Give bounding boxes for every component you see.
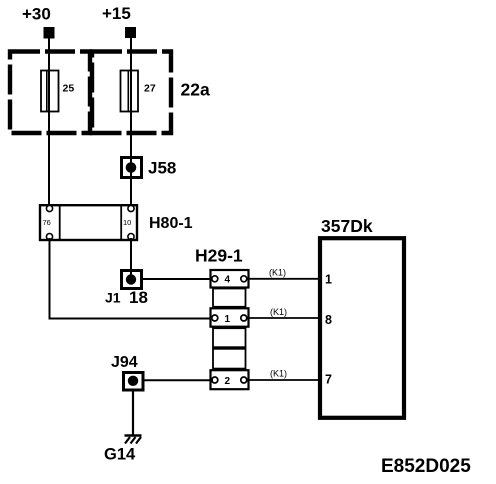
svg-text:7: 7 — [325, 373, 332, 387]
svg-text:18: 18 — [129, 288, 148, 307]
wire H29-1 pin 1 to 357Dk pin 8 — [249, 317, 323, 319]
wire from J94 to H29-1 pin 2 — [143, 379, 213, 381]
H29-1 blank cell 1 — [213, 289, 246, 307]
svg-text:1: 1 — [225, 314, 231, 325]
svg-text:E852D025: E852D025 — [381, 456, 471, 477]
svg-text:(K1): (K1) — [270, 368, 287, 378]
fuse 25 — [41, 71, 59, 112]
svg-text:J1: J1 — [105, 290, 121, 306]
svg-text:25: 25 — [63, 83, 75, 95]
wire from +30 post through fuse 25 to H80-1 pin 76 — [48, 38, 50, 208]
svg-text:4: 4 — [225, 275, 231, 286]
svg-text:22a: 22a — [181, 80, 210, 100]
H29-1 blank cell 3 — [213, 349, 246, 369]
svg-text:10: 10 — [123, 218, 131, 227]
fuse 27 — [121, 71, 139, 112]
wire H29-1 pin 2 to 357Dk pin 7 — [249, 379, 323, 381]
svg-text:J58: J58 — [148, 159, 176, 178]
svg-text:357Dk: 357Dk — [321, 216, 373, 236]
H29-1 blank cell 2 — [213, 328, 246, 347]
svg-text:J94: J94 — [111, 354, 138, 371]
H29-1 pin 2 row — [211, 370, 249, 389]
connector H80-1 body — [40, 205, 137, 240]
connector J58 — [122, 158, 142, 178]
terminal post +15 — [125, 27, 136, 38]
svg-text:(K1): (K1) — [269, 267, 286, 277]
svg-text:27: 27 — [144, 83, 156, 95]
svg-text:H29-1: H29-1 — [195, 246, 243, 266]
svg-text:H80-1: H80-1 — [149, 215, 193, 232]
connector J1 — [122, 271, 142, 289]
svg-text:8: 8 — [325, 313, 332, 327]
H80-1 pin 10 top circle — [128, 205, 134, 211]
svg-text:1: 1 — [325, 273, 332, 287]
component 357Dk box — [320, 238, 404, 418]
wire from H80-1 pin 10 down to J1 — [130, 238, 132, 279]
wire from +15 post through fuse 27 and J58 to H80-1 pin 10 — [130, 38, 132, 208]
svg-text:(K1): (K1) — [270, 307, 287, 317]
svg-text:76: 76 — [43, 218, 51, 227]
wire H29-1 pin 4 to 357Dk pin 1 — [249, 278, 323, 280]
H80-1 pin 76 bottom circle — [46, 234, 52, 240]
fuse holder box 22a right cell — [92, 52, 171, 134]
svg-text:2: 2 — [225, 376, 231, 387]
svg-text:+15: +15 — [102, 4, 131, 23]
svg-text:G14: G14 — [104, 446, 136, 464]
wire from J94 down to ground G14 — [132, 390, 134, 435]
fuse holder box 22a left cell — [10, 52, 90, 134]
wire from J1 to H29-1 pin 4 — [142, 278, 214, 280]
ground symbol G14 — [125, 436, 142, 444]
H80-1 pin 76 top circle — [46, 205, 52, 211]
H80-1 pin 10 bottom circle — [128, 234, 134, 240]
H29-1 pin 1 row — [211, 308, 249, 326]
H29-1 pin 4 row — [211, 270, 249, 288]
svg-text:+30: +30 — [22, 5, 51, 24]
connector J94 — [124, 373, 144, 391]
wire from H80-1 pin 76 down then right to H29-1 pin 1 — [50, 238, 214, 319]
terminal post +30 — [44, 27, 55, 39]
